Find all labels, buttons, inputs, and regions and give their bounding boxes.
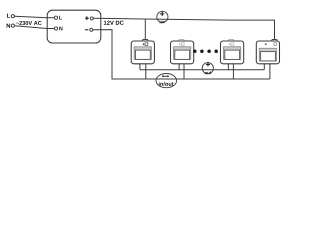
terminal L (mains input) xyxy=(11,15,14,18)
badge +out symbols xyxy=(206,63,210,65)
box 1 pin to in/out bus xyxy=(145,64,147,79)
device box 1 connection tab xyxy=(143,40,148,42)
box 4 label window xyxy=(259,48,276,61)
box 1 pin to out bus xyxy=(139,64,141,70)
label N xyxy=(7,24,11,28)
box 3 pin to out bus xyxy=(227,64,229,70)
device box 2 connection tab xyxy=(179,40,184,42)
device box 4 connection tab xyxy=(272,40,277,42)
power supply pin L xyxy=(47,17,54,19)
device box 3 connection tab xyxy=(229,40,234,42)
box 1 label window xyxy=(134,47,151,60)
wire 0V / in-out bus from power supply xyxy=(93,30,270,79)
box 2 pin to in/out bus xyxy=(183,64,185,79)
box 4 pin to in/out bus xyxy=(269,64,271,79)
label L xyxy=(7,14,10,18)
wire top bus tap to box1 xyxy=(144,19,146,40)
wire out bus xyxy=(140,69,264,71)
box 2 top icon (+ port) xyxy=(179,43,181,45)
box 4 top icon (+ port) xyxy=(265,43,267,45)
device box 1 xyxy=(131,41,154,64)
box 1 top icon (+ port) xyxy=(143,43,145,45)
box 3 label window xyxy=(224,47,241,60)
box 4 pin to out bus xyxy=(263,64,265,70)
power supply pin - xyxy=(85,29,88,31)
badge +out on out bus xyxy=(202,63,213,74)
wire N to power supply xyxy=(15,26,48,29)
wire +12V top bus xyxy=(93,18,274,39)
power supply pin + xyxy=(85,17,89,19)
continuation dots xyxy=(193,50,197,54)
box 2 label window xyxy=(174,47,191,60)
box 2 pin to out bus xyxy=(178,64,180,70)
label 12V DC xyxy=(104,21,124,25)
device box 4 xyxy=(256,41,279,64)
box 3 top icon (+ port) xyxy=(229,43,231,45)
power supply U1 230V AC / 12V DC xyxy=(47,10,101,43)
terminal N (mains input) xyxy=(11,24,14,27)
device box 2 xyxy=(171,41,194,64)
badge in/out label xyxy=(159,82,174,86)
badge +12V on top bus xyxy=(157,11,168,22)
badge +12V symbols xyxy=(160,13,164,15)
wire L to power supply xyxy=(15,16,48,17)
box 3 pin to in/out bus xyxy=(232,64,234,79)
device box 3 xyxy=(221,41,244,64)
badge in/out on in/out bus xyxy=(156,74,177,88)
badge in/out arrow symbol xyxy=(163,75,169,77)
label ~230V AC xyxy=(16,21,42,25)
power supply pin N xyxy=(47,28,54,30)
